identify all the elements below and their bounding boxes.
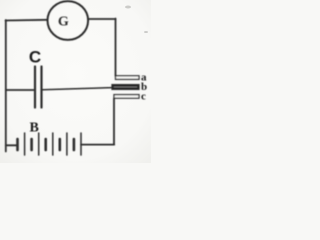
wire capacitor left stub xyxy=(6,89,34,91)
svg-text:c: c xyxy=(141,91,146,103)
plate tall 4 xyxy=(66,133,68,155)
faint scan smudges (decorative) xyxy=(125,6,148,34)
plate tall 5 xyxy=(80,133,82,155)
plate short 5 xyxy=(73,139,76,150)
plate tall 2 xyxy=(38,133,40,155)
wire top-right horizontal xyxy=(88,18,115,20)
svg-text:C: C xyxy=(29,48,41,67)
wire right vertical upper xyxy=(115,19,117,76)
wire capacitor to terminal b xyxy=(43,88,113,90)
plate short 4 xyxy=(58,139,61,150)
terminal a xyxy=(116,72,148,84)
plate short 3 xyxy=(44,139,47,150)
galvanometer G xyxy=(48,1,89,40)
wire bottom horizontal xyxy=(81,144,114,146)
plate short 2 xyxy=(30,139,33,150)
wire bottom-left to battery xyxy=(6,144,17,146)
wire left vertical xyxy=(5,20,7,152)
battery B xyxy=(18,121,82,156)
wire right vertical lower xyxy=(113,99,115,145)
capacitor C xyxy=(29,48,42,108)
wire top-left horizontal xyxy=(6,19,48,22)
terminal c xyxy=(114,91,146,103)
svg-text:B: B xyxy=(30,121,39,136)
terminal b xyxy=(112,81,147,93)
svg-text:G: G xyxy=(58,15,69,30)
plate short 1 xyxy=(16,139,19,150)
plate tall 3 xyxy=(52,133,54,155)
plate tall 1 xyxy=(24,133,26,155)
